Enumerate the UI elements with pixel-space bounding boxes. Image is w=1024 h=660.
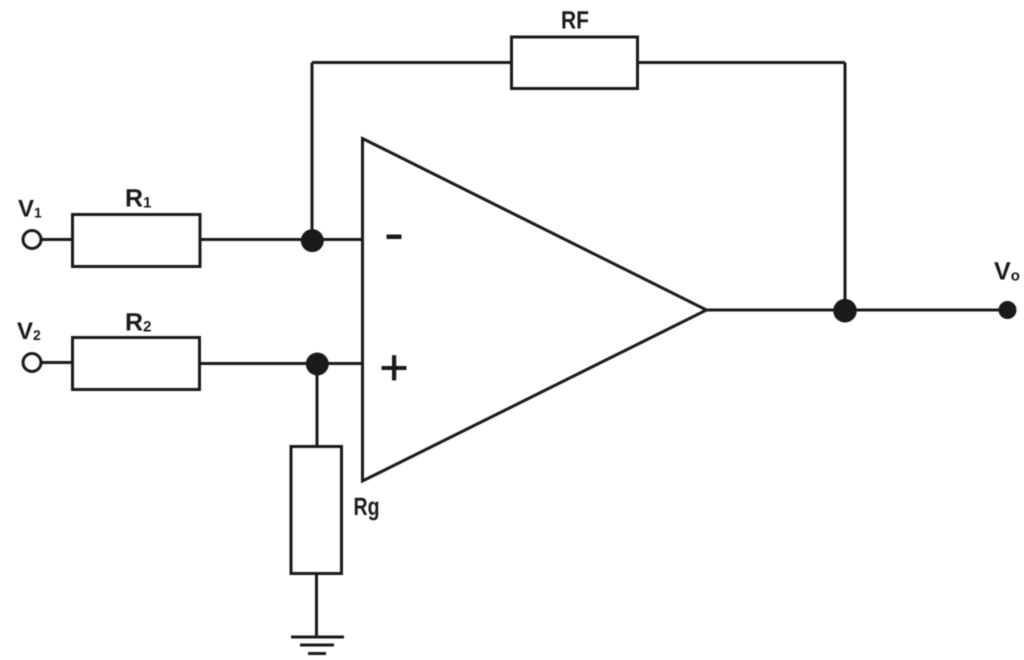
- svg-text:Rg: Rg: [354, 493, 380, 521]
- resistor RF: [512, 37, 638, 89]
- junction at output: [833, 299, 857, 323]
- resistor Rg: [291, 447, 342, 574]
- ground: [291, 637, 344, 654]
- wire feedback vertical right: [844, 63, 847, 311]
- junction at inverting input: [301, 229, 324, 252]
- wire feedback vertical left: [311, 63, 314, 241]
- wire R1 to inverting input: [200, 238, 363, 241]
- node Vo endpoint: [999, 301, 1017, 319]
- terminal V1: [23, 231, 41, 249]
- terminal V2: [23, 354, 41, 372]
- wire output: [707, 309, 1008, 312]
- svg-text:V1: V1: [18, 196, 42, 223]
- junction at non-inverting input: [306, 353, 329, 376]
- wire Rg to ground: [315, 574, 318, 637]
- svg-text:R2: R2: [125, 309, 151, 337]
- resistor R2: [73, 338, 200, 390]
- op-amp U1: [363, 139, 707, 482]
- wire Rg vertical top: [316, 364, 319, 448]
- svg-text:Vo: Vo: [994, 258, 1020, 286]
- pin + (non-inverting input): [382, 355, 407, 380]
- wire V2 to R2: [41, 361, 74, 364]
- wire feedback top left: [312, 61, 513, 64]
- resistor R1: [73, 215, 201, 267]
- pin - (inverting input): [387, 235, 402, 240]
- svg-text:RF: RF: [561, 6, 589, 34]
- svg-text:R1: R1: [125, 185, 151, 213]
- svg-text:V2: V2: [17, 318, 41, 345]
- wire R2 to non-inverting input: [200, 362, 363, 365]
- wire feedback top right: [638, 61, 846, 64]
- wire V1 to R1: [41, 238, 74, 241]
